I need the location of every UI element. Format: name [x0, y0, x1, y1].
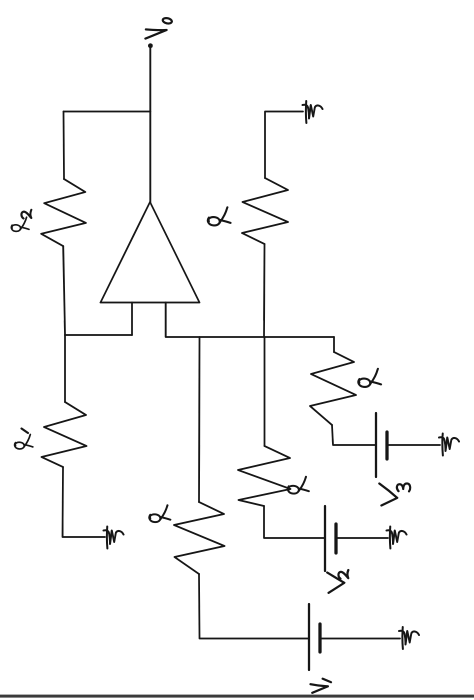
- ground (V2): [387, 527, 407, 549]
- label R (ground branch): [208, 207, 231, 225]
- label V1: [311, 679, 332, 693]
- wire + input branch to Rground: [263, 244, 266, 337]
- resistor R (V2 branch): [238, 446, 291, 506]
- ground (R branch): [303, 101, 323, 123]
- label Vo: [145, 17, 172, 38]
- ground (V3): [439, 434, 459, 456]
- wire R2 top: [63, 112, 66, 180]
- wire V1 battery to ground: [320, 638, 400, 640]
- battery V2 long plate: [324, 506, 326, 571]
- wire R1 horizontal: [64, 335, 66, 402]
- wire V1 branch horizontal: [198, 337, 201, 502]
- battery V1 short plate: [318, 624, 321, 652]
- wire inverting node vertical: [65, 334, 132, 336]
- resistor R (V3 branch): [310, 352, 356, 425]
- label R1: [15, 434, 33, 449]
- wire V2 branch horizontal: [264, 337, 266, 446]
- wire R1 to ground: [63, 467, 106, 537]
- battery V2 short plate: [334, 524, 337, 553]
- label R (V3 branch): [358, 369, 381, 387]
- node A (Vo terminal dot): [148, 43, 153, 48]
- resistor R2: [41, 179, 86, 246]
- label R (V1 branch): [149, 505, 170, 522]
- label R2: [11, 217, 29, 231]
- wire Rground to ground: [265, 112, 303, 179]
- border (scan edge): [0, 695, 474, 698]
- wire R2 bottom to inverting node: [63, 246, 65, 335]
- battery V3 short plate: [385, 432, 388, 459]
- label R (V2 branch): [288, 477, 309, 494]
- wire output: op-amp apex to Vo node: [149, 46, 151, 203]
- wire V2 R to battery: [264, 506, 325, 538]
- resistor R (to ground): [242, 178, 288, 244]
- label V3: [379, 483, 410, 505]
- wire feedback vertical tap: [64, 111, 151, 113]
- wire V3 branch from rail: [333, 337, 335, 352]
- battery V3 long plate: [375, 413, 377, 477]
- wire V3 R to battery: [332, 425, 376, 445]
- resistor R (V1 branch): [174, 502, 225, 574]
- wire V2 battery to ground: [336, 537, 388, 539]
- wire non-inverting input stub: [165, 303, 167, 337]
- wire summing rail: [166, 336, 334, 338]
- ground (R1): [104, 527, 124, 549]
- ground (V1): [399, 627, 419, 649]
- wire V3 battery to ground: [387, 444, 440, 446]
- wire inverting input stub: [131, 303, 133, 336]
- op-amp U1: [101, 202, 200, 303]
- label V2: [327, 570, 348, 593]
- wire V1 R to battery: [199, 574, 309, 639]
- battery V1 long plate: [308, 604, 310, 670]
- resistor R1: [42, 402, 87, 467]
